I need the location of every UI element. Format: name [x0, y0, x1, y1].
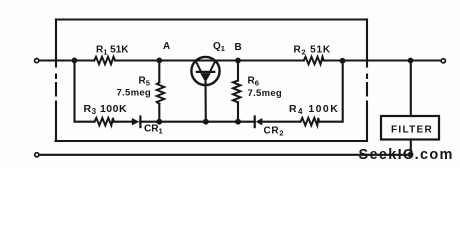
junction dot (R2/R4 riser): [340, 58, 346, 64]
wire: R4 to right riser up to main rail: [319, 61, 343, 122]
outer enclosure box left edge dash-dot segment: [55, 75, 57, 96]
outer enclosure box right edge (solid above wire): [366, 20, 368, 67]
junction dot row3 under A (R5 bottom): [156, 119, 162, 125]
svg-text:R6: R6: [248, 76, 259, 88]
wire: node A down to R5: [158, 60, 160, 82]
right output terminal: [441, 59, 445, 63]
svg-text:B: B: [235, 42, 242, 53]
outer enclosure box bottom edge: [56, 140, 367, 142]
resistor R5: [157, 83, 164, 104]
junction dot (filter tap): [408, 58, 414, 64]
svg-text:7.5meg: 7.5meg: [117, 88, 152, 99]
wire: CR1 to Q1 lead: [140, 121, 206, 123]
wire: left riser junction to bottom row: [75, 60, 95, 121]
bottom left terminal: [35, 153, 39, 157]
wire: CR2 to R4: [262, 121, 301, 123]
FILTER block box: [381, 116, 439, 140]
junction dot row3 under B (R6 bottom): [235, 119, 241, 125]
junction dot row3 under Q1: [203, 119, 209, 125]
svg-text:Q1: Q1: [213, 41, 225, 53]
svg-text:A: A: [163, 41, 170, 52]
resistor R2: [304, 57, 324, 64]
outer enclosure box right edge dash-dot segment: [366, 75, 368, 96]
transistor Q1: [191, 57, 219, 122]
node A junction dot: [156, 58, 162, 64]
node junction dot (left, feed to R3 row): [72, 58, 78, 64]
outer enclosure box left edge (solid above wire): [55, 20, 57, 67]
svg-text:R1 51K: R1 51K: [96, 45, 129, 57]
resistor R3: [95, 118, 114, 126]
svg-text:R4 100K: R4 100K: [289, 103, 339, 116]
left input terminal: [35, 59, 39, 63]
svg-text:R3 100K: R3 100K: [84, 103, 128, 116]
outer enclosure box left edge (solid lower): [55, 102, 57, 142]
wire: main rail R1 to node A: [115, 59, 159, 61]
node B junction dot: [235, 58, 241, 64]
svg-text:R2 51K: R2 51K: [294, 45, 331, 57]
svg-text:CR2: CR2: [264, 126, 285, 138]
wire: node B down to R6: [237, 61, 239, 81]
wire: R5 to bottom row: [158, 104, 160, 122]
svg-text:FILTER: FILTER: [391, 125, 433, 136]
resistor R4: [301, 118, 320, 126]
outer enclosure box right edge (solid lower): [366, 102, 368, 142]
svg-text:7.5meg: 7.5meg: [248, 88, 283, 99]
diode CR1: [132, 117, 141, 128]
resistor R6: [233, 81, 240, 103]
svg-text:R5: R5: [139, 76, 150, 88]
diode CR2: [255, 117, 263, 128]
wire: bottom rail: [39, 154, 411, 156]
wire: main rail node A to node B (through Q1): [159, 59, 238, 61]
svg-text:CR1: CR1: [144, 124, 163, 136]
wire: R6 to bottom row: [237, 102, 239, 121]
wire: main rail R2 to right terminal: [324, 59, 441, 61]
junction dot bottom rail / filter: [408, 152, 414, 158]
wire: R3 to CR1: [114, 121, 132, 123]
wire: filter top lead: [410, 61, 412, 117]
resistor R1: [94, 57, 115, 64]
outer enclosure box top edge: [56, 18, 367, 20]
wire: Q1 lead to CR2: [206, 121, 255, 123]
wire: filter bottom lead: [410, 140, 412, 155]
wire: main top rail left segment: [39, 59, 94, 61]
wire: main rail node B to R2: [238, 59, 304, 61]
